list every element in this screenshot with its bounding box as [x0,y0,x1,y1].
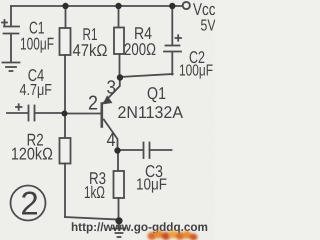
paper noise overlay [0,0,215,240]
node emitter [117,74,123,80]
ground (bottom) [113,221,126,237]
node base [62,111,68,117]
watermark orange blobs [148,231,198,240]
resistor R4 [114,6,124,75]
wire C1 top lead [10,6,12,26]
node bottom [115,217,122,224]
terminal Vcc [183,2,190,9]
figure number 2 [11,185,46,222]
wire bottom line [65,217,118,220]
capacitor C1 [2,20,19,62]
resistor R3 [114,152,125,219]
capacitor C4 [16,104,62,120]
node top C2 [169,3,175,9]
wire base line [65,113,101,115]
wire input line [7,112,28,114]
transistor Q1 [102,78,120,149]
node collector [114,147,120,153]
node top R4 [115,3,121,9]
node top R1 [62,3,68,9]
ground (C1) [3,63,20,72]
capacitor C3 [144,143,172,159]
wire emitter node to C2 [120,74,173,77]
wire collector to C3 [119,149,143,151]
resistor R1 [60,6,71,111]
capacitor C2 [164,6,181,75]
resistor R2 [60,116,71,217]
wire top supply rail [11,5,182,7]
